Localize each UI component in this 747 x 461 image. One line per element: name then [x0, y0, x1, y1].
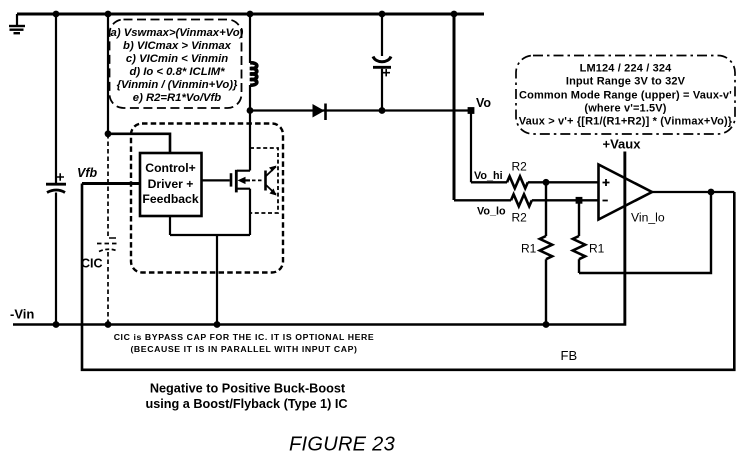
svg-text:-Vin: -Vin: [10, 306, 34, 321]
svg-text:Negative to Positive Buck-Boos: Negative to Positive Buck-Boost: [150, 382, 346, 396]
svg-text:Control+: Control+: [145, 161, 195, 175]
svg-text:Vo_lo: Vo_lo: [477, 206, 506, 218]
svg-text:Vo: Vo: [476, 96, 491, 110]
svg-text:{Vinmin / (Vinmin+Vo)}: {Vinmin / (Vinmin+Vo)}: [117, 79, 238, 91]
svg-text:Vin_lo: Vin_lo: [631, 211, 665, 225]
svg-text:Feedback: Feedback: [142, 192, 198, 206]
svg-text:FB: FB: [561, 348, 578, 363]
svg-text:using a Boost/Flyback (Type 1): using a Boost/Flyback (Type 1) IC: [145, 397, 347, 411]
svg-text:Vo_hi: Vo_hi: [474, 170, 503, 182]
svg-text:Common Mode Range (upper) = Va: Common Mode Range (upper) = Vaux-v': [519, 90, 732, 102]
svg-text:+Vaux: +Vaux: [603, 137, 642, 152]
svg-text:FIGURE 23: FIGURE 23: [289, 434, 395, 456]
svg-text:e) R2=R1*Vo/Vfb: e) R2=R1*Vo/Vfb: [133, 92, 222, 104]
svg-text:c) VICmin < Vinmin: c) VICmin < Vinmin: [126, 53, 228, 65]
svg-text:d) Io < 0.8* ICLIM*: d) Io < 0.8* ICLIM*: [129, 66, 225, 78]
svg-text:CIC is BYPASS CAP FOR THE IC.: CIC is BYPASS CAP FOR THE IC. IT IS OPTI…: [114, 332, 375, 342]
svg-text:Input Range 3V to 32V: Input Range 3V to 32V: [566, 76, 686, 88]
svg-text:R1: R1: [521, 242, 537, 256]
svg-text:a) Vswmax>(Vinmax+Vo): a) Vswmax>(Vinmax+Vo): [111, 27, 244, 39]
svg-text:CIC: CIC: [81, 257, 103, 271]
svg-text:Vfb: Vfb: [77, 166, 98, 180]
svg-text:(where v'=1.5V): (where v'=1.5V): [584, 103, 666, 115]
svg-text:R1: R1: [589, 242, 605, 256]
svg-text:(BECAUSE IT IS IN PARALLEL WIT: (BECAUSE IT IS IN PARALLEL WITH INPUT CA…: [130, 344, 357, 354]
svg-text:Driver +: Driver +: [148, 177, 194, 191]
svg-text:R2: R2: [512, 211, 528, 225]
svg-text:R2: R2: [512, 160, 528, 174]
svg-text:LM124 / 224 / 324: LM124 / 224 / 324: [580, 63, 673, 75]
svg-text:Vaux > v'+ {[R1/(R1+R2)] * (Vi: Vaux > v'+ {[R1/(R1+R2)] * (Vinmax+Vo)}: [519, 116, 733, 128]
svg-text:b) VICmax > Vinmax: b) VICmax > Vinmax: [123, 40, 232, 52]
